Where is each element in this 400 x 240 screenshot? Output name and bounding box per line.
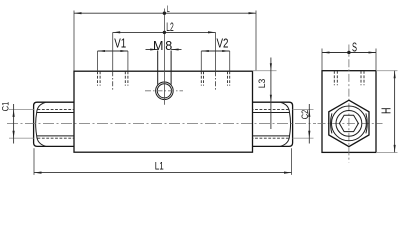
right plug chamfer arcs [281,102,291,146]
dimension L line [74,12,256,15]
svg-text:C1: C1 [1,102,12,112]
dimension C2 extension lines [293,109,314,138]
dimension V1 line [98,50,128,71]
hex plug nut (end view) [329,100,369,146]
plug face circle [336,111,362,137]
label C1 [1,102,12,112]
svg-text:M: M [153,39,163,53]
dimension S extension lines [322,49,376,71]
valve body (side view) [322,71,376,153]
right plug thread (hidden) [253,109,289,138]
left plug thread (hidden) [38,109,75,138]
dimension L extension lines [74,11,256,71]
internal hex socket [339,115,358,131]
svg-text:H: H [379,108,394,115]
label S [352,40,357,54]
svg-text:L1: L1 [155,160,164,172]
side view vertical centerline [348,45,350,163]
svg-text:V1: V1 [114,37,126,51]
right hex plug [253,102,293,146]
dimension L1 line [34,172,292,174]
label L [167,4,170,15]
left hex plug [34,102,74,146]
dimension C2 line [308,104,310,144]
dimension L3 extension line [253,70,277,72]
dimension L3 line [270,58,272,130]
dimension H line [394,71,396,153]
main axis centerline [7,123,316,125]
label V1 [114,37,126,51]
gauge port circles [156,82,174,100]
label M18 [153,39,172,53]
dimension S line [322,51,376,54]
svg-text:8: 8 [165,39,172,53]
svg-text:L: L [167,4,170,15]
dimension C1 line [13,104,15,144]
center gauge port M18 bore [158,51,171,85]
svg-text:L3: L3 [257,79,268,89]
dimension M18 arrows [146,49,182,51]
label L1 [155,160,164,172]
dimension C1 extension lines [9,109,34,138]
label C2 [300,110,311,120]
side view mounting holes (hidden) [334,71,364,85]
label V2 [217,37,229,51]
dimension L2 line [113,31,216,71]
svg-text:L2: L2 [166,20,174,34]
side view horizontal centerline [318,122,383,124]
label L3 [257,79,268,89]
svg-text:V2: V2 [217,37,229,51]
nut left face chamfer arc [331,113,332,133]
dimension V2 line [201,50,229,71]
port V1 (hidden thread) [98,71,128,89]
svg-text:C2: C2 [300,110,311,120]
gauge port horizontal centerline [145,90,183,92]
nut chamfer circle [332,106,367,141]
svg-text:S: S [352,40,357,54]
label L2 [166,20,174,34]
left plug chamfer arcs [36,102,46,146]
valve body (front view) [74,71,253,152]
nut right face chamfer arc [366,113,367,133]
dimension H extension lines [376,71,398,153]
label H [379,108,394,115]
port V2 (hidden thread) [201,71,229,89]
dimension L1 extension lines [34,148,292,175]
gauge port vertical centerline [163,9,165,105]
